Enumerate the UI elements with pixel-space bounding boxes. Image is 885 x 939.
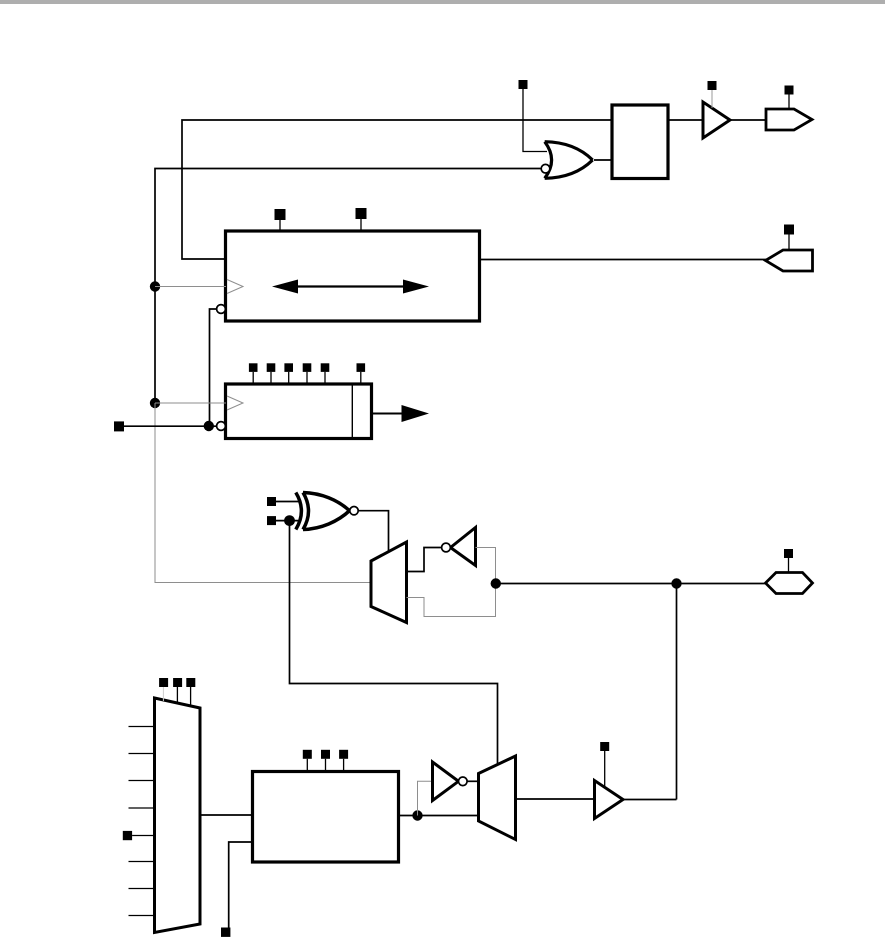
wire: U5 lower input from square S24 bbox=[229, 842, 253, 928]
wire: net from vertical bus x155 to OR gate G1 inverted input bbox=[155, 169, 541, 404]
inverter U4 (points left) bbox=[451, 528, 476, 566]
config square S16 (pad P3) bbox=[784, 549, 793, 558]
inversion bubble on U3 enable bbox=[217, 422, 226, 431]
delay block U5 (bottom box) bbox=[253, 772, 399, 863]
wire: S10 stem bbox=[306, 372, 308, 384]
config square S21 (U5) bbox=[303, 750, 312, 759]
config square S20 (M3 input) bbox=[123, 831, 132, 840]
wire: M3 output to delay block U5 bbox=[200, 814, 253, 816]
config square S3 (pad P1) bbox=[785, 86, 794, 95]
wire: M3 input stub 3 bbox=[129, 780, 155, 782]
buffer B2 bbox=[595, 781, 624, 819]
wire: G2 output to mux M1 select bbox=[358, 511, 388, 552]
bidirectional arrow inside U2 bbox=[272, 280, 429, 294]
config square S7 (U3) bbox=[249, 363, 258, 372]
wire: M3 input stub 1 bbox=[129, 726, 155, 728]
wire: M3 input stub 6 bbox=[129, 861, 155, 863]
wire: B2 output to node N6 bbox=[623, 799, 677, 801]
wire: U5 output to mux M2 bbox=[399, 815, 479, 817]
wire: M3 input stub 8 bbox=[129, 915, 155, 917]
wire: S22 stem bbox=[325, 759, 327, 772]
config square S2 (buffer B1 control) bbox=[708, 81, 717, 90]
wire: M3 input stub 2 bbox=[129, 753, 155, 755]
wire: S5 stem bbox=[360, 219, 362, 231]
config square S8 (U3) bbox=[267, 363, 276, 372]
junction dot N7 bbox=[412, 810, 422, 820]
inverter U6 bbox=[433, 762, 459, 801]
junction dot N2 on clock net bbox=[150, 398, 160, 408]
xor-gate G2 bbox=[296, 493, 350, 530]
wire: S8 stem bbox=[270, 372, 272, 384]
config square S4 (U2) bbox=[275, 209, 286, 220]
inversion bubble on U4 output bbox=[442, 543, 451, 552]
wire: M3 input stub 7 bbox=[129, 888, 155, 890]
wire: S12 stem bbox=[360, 372, 362, 384]
config square S5 (U2) bbox=[356, 208, 367, 219]
config square S1 (OR gate top input) bbox=[519, 80, 528, 89]
input mux M3 (tall trapezoid) bbox=[155, 698, 201, 933]
wire: S9 stem bbox=[288, 372, 290, 384]
config square S18 (M3 select) bbox=[173, 678, 182, 687]
wire: U3 output bbox=[372, 413, 404, 415]
clock triangle on U2 bbox=[227, 280, 243, 294]
wire: S7 stem bbox=[252, 372, 254, 384]
wire: U4 input loop from M1 lower output bbox=[407, 548, 496, 617]
register U3 (small box) bbox=[226, 384, 372, 439]
wire: S13 to node N3 bbox=[124, 425, 210, 427]
wire: S20 to M3 bbox=[132, 835, 154, 837]
flip-flop U1 (top box) bbox=[612, 105, 668, 179]
buffer B1 bbox=[703, 102, 730, 138]
wire: clock net continues down to mux M1 select bbox=[155, 403, 371, 583]
wire: S4 stem bbox=[279, 220, 281, 231]
config square S10 (U3) bbox=[303, 363, 312, 372]
mux M2 bbox=[479, 756, 516, 840]
wire: clock into U2 bbox=[155, 286, 226, 288]
config square S9 (U3) bbox=[284, 363, 293, 372]
junction dot N1 on clock net bbox=[150, 281, 160, 291]
wire: N7 up to inverter U6 input bbox=[418, 781, 433, 815]
wire: S19 stem bbox=[190, 687, 192, 707]
wire: S17 stem bbox=[162, 687, 164, 701]
wire: M3 input stub 4 bbox=[129, 807, 155, 809]
shift register U2 (large box) bbox=[226, 231, 480, 321]
top toolbar strip bbox=[0, 0, 885, 4]
config square S6 (pad P2) bbox=[784, 225, 794, 235]
input pad P2 bbox=[766, 250, 813, 271]
junction dot N6 bbox=[671, 578, 681, 588]
inversion bubble on G2 output bbox=[350, 507, 358, 515]
wire: N6 down to buffer B2 output bbox=[676, 584, 678, 800]
or-gate G1 bbox=[545, 142, 593, 179]
wire: S6 stem to P2 bbox=[788, 235, 790, 251]
wire: U2 output to pad P2 bbox=[480, 259, 767, 261]
wire: S2 stem to B1 bbox=[711, 90, 713, 108]
wire: M1 output to inverter U4 bbox=[407, 548, 442, 572]
wire: U6 output to mux M2 bbox=[467, 780, 478, 782]
wire: S18 stem bbox=[176, 687, 178, 704]
config square S22 (U5) bbox=[321, 750, 330, 759]
wire: S14 to XOR G2 bbox=[276, 501, 300, 503]
wire: net from vertical bus x182 to flip-flop U2 data input bbox=[182, 120, 612, 259]
divider in U3 bbox=[351, 384, 353, 439]
wire: S25 stem to B2 bbox=[604, 751, 606, 786]
clock triangle on U3 bbox=[227, 396, 243, 410]
inversion bubble on U2 enable bbox=[217, 305, 226, 314]
bidirectional pad P3 bbox=[766, 573, 813, 594]
config square S11 (U3) bbox=[321, 363, 330, 372]
config square S13 (enable source) bbox=[114, 421, 124, 431]
config square S12 (U3) bbox=[357, 363, 366, 372]
wire: B1 output to pad P1 bbox=[730, 119, 766, 121]
inversion bubble on U6 output bbox=[459, 777, 468, 786]
config square S24 bbox=[221, 928, 230, 937]
wire: S11 stem bbox=[324, 372, 326, 384]
wire: N3 to U3 enable bubble bbox=[210, 425, 217, 427]
output pad P1 bbox=[766, 109, 812, 130]
wire: S15 to XOR G2 through node N4 bbox=[276, 520, 300, 522]
config square S15 (XOR input B) bbox=[267, 516, 276, 525]
arrowhead on U3 output bbox=[402, 405, 430, 422]
wire: S16 stem to P3 bbox=[788, 558, 790, 573]
inversion bubble on G1 lower input bbox=[541, 164, 550, 173]
wire: S21 stem bbox=[306, 759, 308, 772]
wire: M2 output to buffer B2 bbox=[516, 798, 595, 800]
wire: U1 output to buffer B1 bbox=[668, 119, 703, 121]
wire: main node to pad P3 bbox=[496, 583, 766, 585]
wire: G1 output to flip-flop U1 bbox=[594, 159, 612, 161]
config square S25 (buffer B2 control) bbox=[600, 742, 609, 751]
wire: S1 stem to OR gate G1 input bbox=[523, 89, 547, 152]
config square S17 (M3 select) bbox=[159, 678, 168, 687]
junction dot N5 (main output node) bbox=[491, 578, 501, 588]
wire: S23 stem bbox=[343, 759, 345, 772]
config square S19 (M3 select) bbox=[186, 678, 195, 687]
junction dot N3 bbox=[204, 421, 214, 431]
config square S23 (U5) bbox=[339, 750, 348, 759]
wire: N4 down and across to mux M2 select bbox=[290, 521, 498, 765]
wire: U2 enable bubble down to node N3 bbox=[210, 309, 217, 426]
wire: S3 stem to P1 bbox=[788, 95, 790, 110]
mux M1 bbox=[371, 542, 407, 623]
junction dot N4 bbox=[284, 515, 295, 526]
config square S14 (XOR input A) bbox=[267, 497, 276, 506]
wire: clock into U3 bbox=[155, 402, 226, 404]
